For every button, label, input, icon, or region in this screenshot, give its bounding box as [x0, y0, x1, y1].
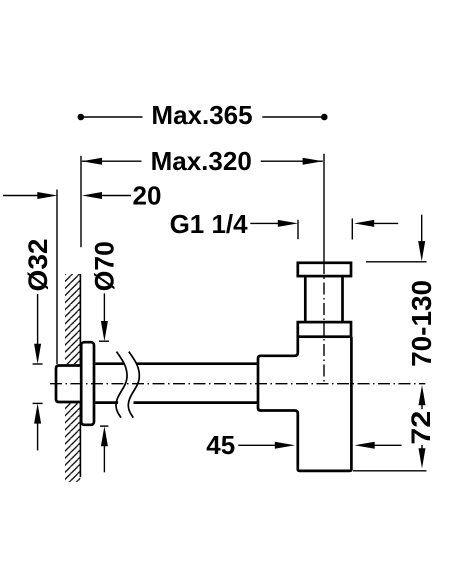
svg-text:Ø32: Ø32 [23, 239, 53, 292]
svg-text:72: 72 [406, 411, 436, 445]
trap body rim [298, 322, 351, 337]
dimension Ø32 upper shaft [37, 294, 39, 345]
dimension Max.365 right dot [321, 114, 328, 121]
dimension 70-130 upper shaft [421, 215, 423, 242]
dimension Ø70 bottom tick [100, 425, 108, 427]
extension tick right (thread) [351, 219, 353, 240]
dimension Max.320 left arrowhead [82, 158, 102, 165]
extension line bottom of body [353, 470, 427, 472]
dimension Ø32 up arrowhead [34, 403, 41, 423]
horizontal centerline [50, 383, 425, 385]
trap top nut [298, 263, 351, 276]
dimension Max.320 line left segment [82, 160, 142, 162]
dimension G1 1/4 right shaft [373, 222, 398, 224]
trap inlet connector and body outline [258, 337, 351, 471]
dimension 72 down arrowhead [419, 448, 426, 468]
dimension Ø32 bottom tick [33, 402, 43, 404]
dimension G1 1/4 right-pointing arrowhead [278, 220, 298, 227]
dimension Max.365 line left segment [83, 116, 143, 118]
svg-text:20: 20 [133, 181, 162, 211]
wall face line [79, 274, 81, 477]
dimension Ø70 top tick [99, 340, 109, 342]
dimension 20 outer left shaft [3, 195, 39, 197]
dimension Max.365 left dot [78, 114, 85, 121]
wall fitting nut interior mask [55, 364, 80, 403]
dimension G1 1/4 left shaft [250, 222, 279, 224]
svg-text:45: 45 [206, 430, 235, 460]
svg-text:Max.365: Max.365 [151, 100, 252, 130]
dimension 20 left-pointing arrowhead [82, 192, 102, 199]
svg-text:70-130: 70-130 [406, 280, 437, 367]
dimension Ø32 lower shaft [37, 423, 39, 451]
dimension Ø32 top tick [33, 363, 43, 365]
pipe break wavy line 1 [116, 352, 127, 418]
dimension Ø70 lower shaft [103, 445, 105, 472]
dimension 72 upper shaft stub [421, 405, 423, 410]
svg-text:Ø70: Ø70 [90, 241, 120, 291]
pipe break wavy line 2 [128, 352, 139, 418]
dimension 72 up arrowhead [419, 385, 426, 405]
dimension 45 left-pointing arrowhead [355, 442, 375, 449]
dimension Ø70 up arrowhead [101, 426, 108, 446]
extension line left of Max.320 [80, 156, 82, 247]
extension line top of tail pipe [366, 261, 427, 263]
dimension 70-130 down arrowhead [418, 241, 425, 261]
dimension Ø70 upper shaft [103, 293, 105, 322]
wall fitting nut [56, 366, 81, 403]
dimension 72 lower shaft stub [421, 445, 423, 449]
dimension 45 right shaft [374, 444, 402, 446]
extension tick left (thread) [297, 220, 299, 239]
dimension Ø70 down arrowhead [101, 321, 108, 341]
extension line right of Max.320 (down to trap top nut) [323, 154, 325, 262]
dimension G1 1/4 left-pointing arrowhead [354, 220, 374, 227]
trap tail pipe [305, 276, 342, 322]
inlet pipe top line [95, 362, 257, 365]
dimension Max.320 right arrowhead [303, 158, 323, 165]
wall flange escutcheon [81, 342, 94, 425]
dimension 45 right-pointing arrowhead [275, 442, 295, 449]
dimension 20 right-pointing arrowhead [37, 192, 57, 199]
dimension Ø32 down arrowhead [34, 344, 41, 364]
wall hatching [65, 274, 80, 482]
dimension Max.320 line right segment [261, 160, 323, 162]
svg-text:G1 1/4: G1 1/4 [170, 209, 249, 239]
dimension 20 right shaft [101, 195, 131, 197]
svg-text:Max.320: Max.320 [151, 146, 252, 176]
vertical centerline of tail pipe [323, 262, 325, 384]
extension line for 20 at wall nut [56, 190, 58, 365]
dimension Max.365 line right segment [262, 116, 322, 118]
dimension 45 left shaft [238, 444, 275, 446]
inlet pipe bottom line [95, 401, 257, 404]
